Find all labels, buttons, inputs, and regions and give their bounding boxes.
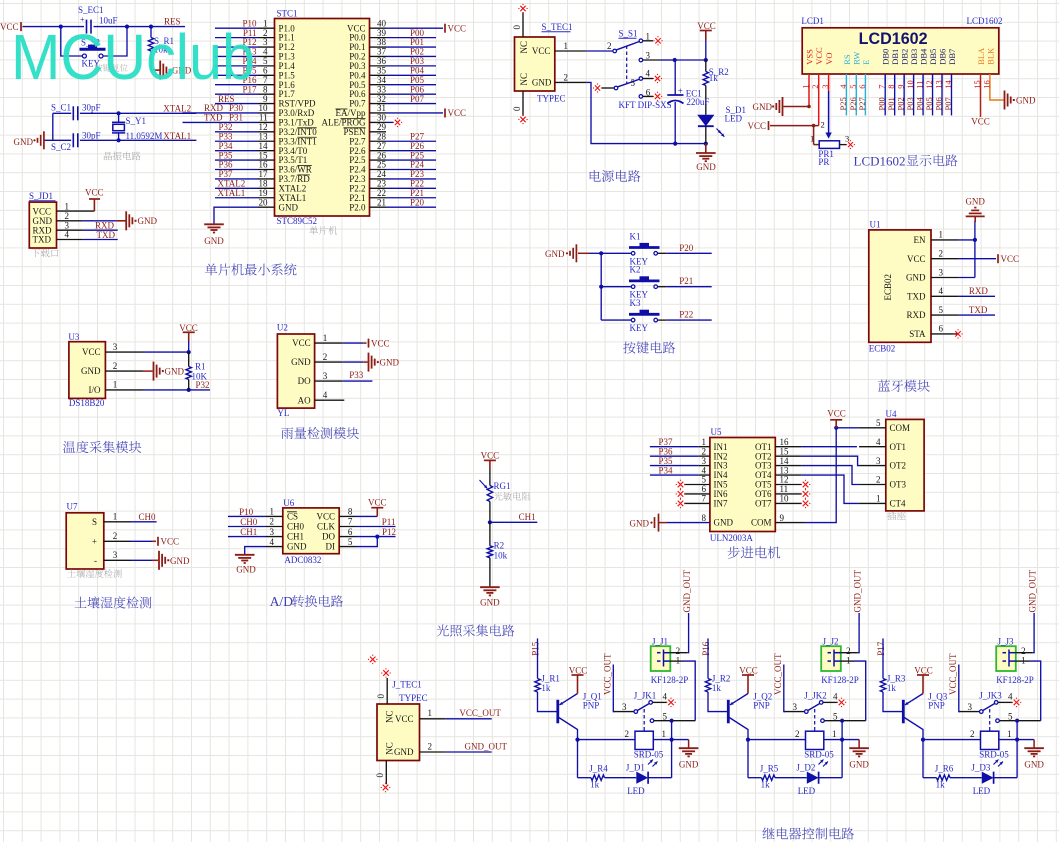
- svg-text:R2: R2: [494, 541, 505, 551]
- svg-text:1k: 1k: [709, 73, 719, 83]
- svg-text:TXD: TXD: [907, 291, 926, 301]
- svg-text:J_D3: J_D3: [971, 762, 991, 772]
- svg-text:VCC: VCC: [1001, 254, 1020, 264]
- svg-text:CH0: CH0: [139, 512, 157, 522]
- svg-text:1: 1: [939, 230, 944, 240]
- svg-text:GND: GND: [236, 565, 256, 575]
- svg-text:+: +: [678, 86, 683, 96]
- svg-text:10: 10: [780, 494, 790, 504]
- svg-text:GND: GND: [753, 102, 773, 112]
- svg-text:CH0: CH0: [240, 517, 258, 527]
- svg-text:GND: GND: [165, 367, 185, 377]
- svg-text:J_R4: J_R4: [589, 764, 608, 774]
- svg-text:1: 1: [1007, 729, 1012, 739]
- svg-text:J_JK2: J_JK2: [804, 690, 827, 700]
- svg-text:1k: 1k: [936, 779, 946, 789]
- svg-text:4: 4: [663, 692, 668, 702]
- svg-text:P15: P15: [531, 641, 541, 656]
- svg-text:1k: 1k: [761, 779, 771, 789]
- svg-text:VCC: VCC: [161, 537, 180, 547]
- svg-text:VCC: VCC: [481, 451, 500, 461]
- svg-text:2: 2: [970, 729, 975, 739]
- svg-text:1k: 1k: [541, 683, 551, 693]
- svg-text:30pF: 30pF: [82, 131, 101, 141]
- svg-text:14: 14: [943, 80, 953, 89]
- svg-text:VCC: VCC: [914, 665, 933, 675]
- svg-text:I/O: I/O: [89, 385, 101, 395]
- svg-text:P33: P33: [349, 370, 364, 380]
- svg-text:J_JK3: J_JK3: [979, 690, 1002, 700]
- svg-text:J_J1: J_J1: [652, 637, 668, 647]
- svg-text:OT1: OT1: [890, 442, 907, 452]
- svg-text:GND: GND: [170, 556, 190, 566]
- svg-text:K3: K3: [630, 298, 641, 308]
- svg-text:PNP: PNP: [583, 701, 600, 711]
- svg-text:VCC: VCC: [739, 665, 758, 675]
- svg-text:4: 4: [270, 537, 275, 547]
- svg-text:VCC: VCC: [368, 498, 387, 508]
- svg-text:1: 1: [564, 41, 569, 51]
- svg-text:NC: NC: [519, 41, 529, 54]
- svg-text:LCD1602: LCD1602: [967, 16, 1003, 26]
- svg-text:P12: P12: [382, 527, 396, 537]
- svg-text:COM: COM: [890, 423, 911, 433]
- svg-text:GND: GND: [204, 236, 224, 246]
- svg-text:4: 4: [1008, 692, 1013, 702]
- svg-text:K2: K2: [630, 265, 641, 275]
- svg-text:XTAL1: XTAL1: [218, 188, 246, 198]
- svg-text:CH0: CH0: [287, 522, 305, 532]
- svg-text:U4: U4: [886, 409, 897, 419]
- svg-text:GND: GND: [287, 542, 307, 552]
- svg-text:DO: DO: [298, 376, 311, 386]
- svg-text:9: 9: [780, 513, 785, 523]
- svg-text:GND: GND: [380, 358, 400, 368]
- svg-text:5: 5: [663, 711, 668, 721]
- svg-text:GND: GND: [532, 78, 552, 88]
- svg-text:GND: GND: [714, 518, 734, 528]
- svg-text:AO: AO: [298, 395, 311, 405]
- svg-text:GND: GND: [679, 759, 699, 769]
- svg-text:7: 7: [702, 494, 707, 504]
- svg-text:3: 3: [939, 267, 944, 277]
- svg-text:KF128-2P: KF128-2P: [651, 675, 689, 685]
- svg-text:5: 5: [876, 418, 881, 428]
- svg-text:0: 0: [376, 694, 386, 699]
- svg-text:LCD1602: LCD1602: [859, 29, 928, 48]
- svg-text:LCD1: LCD1: [801, 16, 824, 26]
- svg-text:VCC_OUT: VCC_OUT: [773, 653, 783, 695]
- svg-text:6: 6: [939, 324, 944, 334]
- svg-text:STC89C52: STC89C52: [277, 216, 318, 226]
- svg-text:LED: LED: [725, 114, 743, 124]
- svg-text:VCC: VCC: [907, 254, 926, 264]
- svg-text:P10: P10: [239, 507, 254, 517]
- svg-text:GND: GND: [81, 366, 101, 376]
- svg-text:GND: GND: [1016, 96, 1036, 106]
- svg-text:5: 5: [1008, 711, 1013, 721]
- svg-text:GND: GND: [696, 162, 716, 172]
- svg-text:11.0592M: 11.0592M: [126, 131, 163, 141]
- svg-text:S_TEC1: S_TEC1: [542, 22, 573, 32]
- svg-text:CH1: CH1: [519, 512, 536, 522]
- svg-text:6: 6: [857, 85, 867, 89]
- svg-text:1: 1: [65, 201, 70, 211]
- svg-text:STA: STA: [909, 329, 926, 339]
- svg-text:OT7: OT7: [755, 499, 772, 509]
- svg-text:3: 3: [113, 342, 118, 352]
- svg-text:VCC_OUT: VCC_OUT: [948, 653, 958, 695]
- svg-text:J_J3: J_J3: [998, 637, 1015, 647]
- svg-text:2: 2: [625, 729, 630, 739]
- svg-text:LCD1602: LCD1602: [854, 153, 906, 168]
- svg-text:P27: P27: [857, 97, 867, 110]
- svg-text:OT3: OT3: [890, 480, 907, 490]
- svg-text:CH1: CH1: [287, 532, 304, 542]
- svg-text:1k: 1k: [887, 683, 897, 693]
- svg-text:1: 1: [846, 655, 851, 665]
- svg-text:PNP: PNP: [753, 701, 770, 711]
- svg-text:IN7: IN7: [714, 499, 728, 509]
- svg-text:VCC: VCC: [448, 23, 467, 33]
- svg-text:PNP: PNP: [928, 701, 945, 711]
- svg-text:5: 5: [631, 78, 636, 88]
- svg-text:U7: U7: [67, 502, 78, 512]
- svg-text:P32: P32: [196, 380, 210, 390]
- svg-text:LED: LED: [798, 786, 816, 796]
- svg-text:1: 1: [801, 85, 811, 89]
- svg-text:8: 8: [702, 513, 707, 523]
- svg-text:LED: LED: [973, 786, 991, 796]
- svg-text:DS18B20: DS18B20: [69, 398, 105, 408]
- svg-text:GND: GND: [14, 137, 34, 147]
- svg-text:J_D2: J_D2: [796, 762, 815, 772]
- svg-text:GND_OUT: GND_OUT: [1027, 570, 1037, 613]
- svg-text:TXD: TXD: [33, 235, 52, 245]
- svg-text:S_EC1: S_EC1: [78, 5, 104, 15]
- svg-text:ADC0832: ADC0832: [284, 555, 321, 565]
- svg-text:VCC: VCC: [316, 512, 335, 522]
- svg-text:P25: P25: [838, 97, 848, 110]
- svg-text:4: 4: [939, 286, 944, 296]
- svg-text:1k: 1k: [712, 683, 722, 693]
- svg-text:P11: P11: [382, 517, 396, 527]
- svg-text:4: 4: [833, 692, 838, 702]
- svg-text:220uF: 220uF: [686, 97, 709, 107]
- svg-text:8: 8: [348, 507, 353, 517]
- svg-text:20: 20: [259, 197, 269, 207]
- svg-text:VCC_OUT: VCC_OUT: [603, 653, 613, 695]
- svg-text:GND: GND: [965, 197, 985, 207]
- svg-text:RS: RS: [842, 54, 852, 65]
- svg-text:GND: GND: [394, 747, 414, 757]
- svg-text:J_R5: J_R5: [760, 764, 779, 774]
- svg-text:VCC: VCC: [85, 188, 104, 198]
- svg-text:2: 2: [270, 517, 275, 527]
- svg-text:RXD: RXD: [906, 310, 926, 320]
- svg-text:P21: P21: [679, 276, 693, 286]
- svg-text:U5: U5: [711, 427, 722, 437]
- svg-text:3: 3: [793, 702, 798, 712]
- svg-text:2: 2: [810, 85, 820, 89]
- svg-text:VCC: VCC: [532, 46, 551, 56]
- svg-text:2: 2: [113, 531, 118, 541]
- svg-text:TYPEC: TYPEC: [399, 693, 428, 703]
- svg-text:VO: VO: [824, 53, 834, 65]
- svg-text:2: 2: [607, 41, 612, 51]
- svg-text:ECB02: ECB02: [869, 344, 896, 354]
- svg-text:KF128-2P: KF128-2P: [821, 675, 859, 685]
- svg-text:GND_OUT: GND_OUT: [852, 570, 862, 613]
- svg-text:GND: GND: [291, 357, 311, 367]
- svg-text:CH1: CH1: [240, 527, 257, 537]
- svg-text:VCC: VCC: [971, 117, 990, 127]
- svg-text:VCC: VCC: [827, 409, 846, 419]
- svg-text:GND_OUT: GND_OUT: [682, 570, 692, 613]
- svg-text:J_J2: J_J2: [823, 637, 839, 647]
- svg-text:OT2: OT2: [890, 461, 907, 471]
- svg-text:VCC: VCC: [569, 665, 588, 675]
- svg-text:S_JD1: S_JD1: [29, 191, 53, 201]
- svg-text:KF128-2P: KF128-2P: [996, 675, 1034, 685]
- svg-text:CT4: CT4: [890, 499, 907, 509]
- svg-text:P2.0: P2.0: [349, 202, 366, 212]
- svg-text:S: S: [92, 517, 97, 527]
- svg-text:3: 3: [323, 371, 328, 381]
- svg-text:U6: U6: [283, 498, 294, 508]
- svg-text:NC: NC: [385, 742, 395, 755]
- svg-text:DI: DI: [326, 542, 336, 552]
- svg-text:J_JK1: J_JK1: [634, 690, 657, 700]
- svg-text:-: -: [94, 555, 97, 565]
- svg-text:2: 2: [428, 741, 433, 751]
- svg-text:VCC: VCC: [697, 21, 716, 31]
- svg-text:CS: CS: [287, 512, 298, 522]
- svg-text:2: 2: [876, 475, 881, 485]
- svg-text:GND: GND: [480, 598, 500, 608]
- svg-text:E: E: [861, 60, 871, 65]
- svg-text:P20: P20: [410, 197, 425, 207]
- svg-text:K1: K1: [630, 231, 641, 241]
- svg-text:1: 1: [676, 655, 681, 665]
- svg-text:NC: NC: [519, 73, 529, 86]
- svg-text:DB7: DB7: [947, 49, 957, 65]
- svg-text:3: 3: [968, 702, 973, 712]
- svg-text:J_R6: J_R6: [935, 764, 954, 774]
- svg-text:VCC: VCC: [82, 347, 101, 357]
- svg-text:S_Y1: S_Y1: [126, 116, 147, 126]
- svg-text:P07: P07: [410, 94, 425, 104]
- svg-text:GND: GND: [138, 216, 158, 226]
- svg-text:1: 1: [270, 507, 275, 517]
- svg-text:P22: P22: [679, 310, 693, 320]
- svg-text:1: 1: [810, 134, 814, 144]
- svg-text:VCC: VCC: [33, 206, 52, 216]
- svg-text:RG1: RG1: [494, 481, 511, 491]
- svg-text:VCC: VCC: [292, 338, 311, 348]
- svg-text:GND: GND: [906, 273, 926, 283]
- svg-text:SRD-05: SRD-05: [634, 749, 664, 759]
- svg-text:J_D1: J_D1: [626, 762, 645, 772]
- svg-text:VCC: VCC: [448, 108, 467, 118]
- svg-text:YL: YL: [277, 408, 289, 418]
- svg-text:GND: GND: [279, 202, 299, 212]
- svg-text:TXD: TXD: [97, 230, 116, 240]
- svg-text:0: 0: [512, 106, 522, 111]
- svg-text:S_C1: S_C1: [51, 103, 71, 113]
- svg-text:1: 1: [876, 494, 881, 504]
- svg-text:STC1: STC1: [277, 8, 298, 18]
- svg-text:5: 5: [939, 305, 944, 315]
- svg-text:3: 3: [270, 527, 275, 537]
- svg-text:1k: 1k: [590, 779, 600, 789]
- svg-text:BLK: BLK: [985, 47, 995, 65]
- svg-text:1: 1: [428, 708, 433, 718]
- svg-text:3: 3: [820, 85, 830, 89]
- svg-text:COM: COM: [751, 518, 772, 528]
- svg-text:2: 2: [113, 361, 118, 371]
- svg-text:1: 1: [1021, 655, 1026, 665]
- svg-text:J_TEC1: J_TEC1: [392, 679, 422, 689]
- svg-text:XTAL2: XTAL2: [163, 103, 191, 113]
- svg-text:5: 5: [833, 711, 838, 721]
- svg-text:LED: LED: [627, 786, 645, 796]
- svg-text:VCC: VCC: [747, 121, 766, 131]
- svg-text:KEY: KEY: [630, 323, 649, 333]
- svg-text:VCC: VCC: [371, 338, 390, 348]
- svg-text:PR: PR: [818, 157, 829, 167]
- svg-text:S_C2: S_C2: [51, 142, 71, 152]
- svg-text:P16: P16: [701, 641, 711, 656]
- svg-text:GND: GND: [1024, 759, 1044, 769]
- svg-text:2: 2: [564, 73, 569, 83]
- svg-text:2: 2: [323, 352, 328, 362]
- svg-text:1: 1: [832, 729, 837, 739]
- svg-text:GND: GND: [849, 759, 869, 769]
- svg-text:GND: GND: [545, 249, 565, 259]
- svg-text:XTAL1: XTAL1: [163, 131, 191, 141]
- svg-text:1: 1: [662, 729, 667, 739]
- svg-text:1: 1: [646, 32, 651, 42]
- svg-text:VSS: VSS: [804, 49, 814, 65]
- svg-text:2: 2: [795, 729, 800, 739]
- svg-text:4: 4: [646, 69, 651, 79]
- svg-text:16: 16: [981, 80, 991, 89]
- svg-text:R1: R1: [195, 362, 206, 372]
- svg-text:VCC_OUT: VCC_OUT: [459, 708, 501, 718]
- svg-text:P17: P17: [876, 641, 886, 656]
- svg-text:0: 0: [512, 25, 522, 30]
- svg-text:21: 21: [377, 197, 386, 207]
- svg-text:10k: 10k: [494, 551, 508, 561]
- svg-text:VCC: VCC: [395, 714, 414, 724]
- svg-text:U2: U2: [277, 323, 288, 333]
- svg-text:KFT DIP-SXS: KFT DIP-SXS: [619, 100, 672, 110]
- svg-text:VCC: VCC: [814, 47, 824, 65]
- svg-text:TYPEC: TYPEC: [537, 94, 566, 104]
- svg-text:2: 2: [821, 120, 825, 130]
- svg-text:3: 3: [113, 550, 118, 560]
- svg-text:10K: 10K: [192, 372, 208, 382]
- svg-text:1: 1: [323, 333, 328, 343]
- svg-text:6: 6: [348, 527, 353, 537]
- svg-text:EN: EN: [914, 235, 926, 245]
- svg-text:4: 4: [876, 437, 881, 447]
- svg-text:SRD-05: SRD-05: [979, 749, 1009, 759]
- svg-text:P20: P20: [679, 243, 694, 253]
- svg-text:GND: GND: [630, 518, 650, 528]
- svg-text:SRD-05: SRD-05: [804, 749, 834, 759]
- svg-text:5: 5: [348, 537, 353, 547]
- svg-text:CLK: CLK: [317, 522, 336, 532]
- svg-text:P07: P07: [943, 97, 953, 110]
- svg-text:TXD: TXD: [969, 305, 988, 315]
- svg-text:GND_OUT: GND_OUT: [465, 741, 508, 751]
- svg-text:4: 4: [323, 390, 328, 400]
- svg-text:NC: NC: [385, 710, 395, 723]
- svg-text:S_S1: S_S1: [619, 29, 638, 39]
- svg-text:A/D: A/D: [270, 594, 294, 609]
- svg-text:30pF: 30pF: [82, 103, 101, 113]
- svg-text:DO: DO: [322, 532, 335, 542]
- svg-text:RXD: RXD: [969, 286, 989, 296]
- svg-text:P34: P34: [659, 465, 674, 475]
- svg-text:2: 2: [939, 249, 944, 259]
- svg-text:3: 3: [646, 51, 651, 61]
- svg-text:ULN2003A: ULN2003A: [710, 533, 753, 543]
- svg-text:1: 1: [113, 512, 118, 522]
- svg-text:U3: U3: [68, 332, 79, 342]
- svg-text:MCUclub: MCUclub: [11, 21, 255, 93]
- svg-text:7: 7: [348, 517, 353, 527]
- svg-text:0: 0: [375, 773, 385, 778]
- svg-text:3: 3: [876, 456, 881, 466]
- svg-text:ECB02: ECB02: [883, 274, 893, 301]
- svg-text:3: 3: [622, 702, 627, 712]
- svg-text:4: 4: [65, 230, 70, 240]
- svg-text:U1: U1: [870, 220, 881, 230]
- svg-text:1: 1: [113, 380, 118, 390]
- svg-text:+: +: [92, 536, 97, 546]
